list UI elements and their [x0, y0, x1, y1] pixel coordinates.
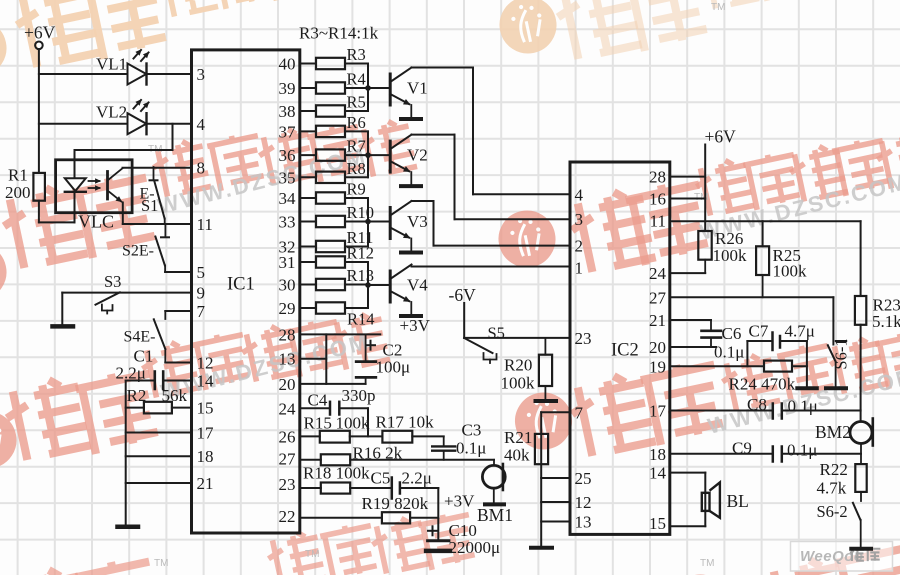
svg-text:+6V: +6V: [705, 127, 737, 147]
svg-text:25: 25: [575, 469, 592, 488]
svg-text:R15: R15: [304, 414, 332, 433]
svg-text:R3: R3: [347, 45, 366, 64]
svg-text:3: 3: [197, 65, 206, 84]
svg-text:30: 30: [279, 276, 296, 295]
svg-text:+6V: +6V: [24, 23, 56, 43]
svg-text:TM: TM: [711, 2, 725, 13]
svg-text:S2E-: S2E-: [122, 243, 154, 260]
svg-text:2.2μ: 2.2μ: [116, 364, 146, 383]
svg-text:13: 13: [279, 350, 296, 369]
svg-text:13: 13: [575, 513, 592, 532]
svg-text:26: 26: [279, 427, 296, 446]
svg-text:0.1μ: 0.1μ: [787, 441, 817, 460]
svg-text:11: 11: [197, 215, 213, 234]
svg-text:C7: C7: [749, 322, 769, 341]
svg-text:R8: R8: [347, 159, 366, 178]
svg-text:17: 17: [197, 424, 215, 443]
svg-text:TM: TM: [154, 558, 168, 569]
svg-text:R21: R21: [504, 428, 532, 447]
svg-text:S5: S5: [488, 324, 505, 343]
svg-text:V3: V3: [407, 212, 428, 231]
svg-text:IC1: IC1: [227, 275, 255, 295]
svg-text:100k: 100k: [336, 414, 371, 433]
svg-text:28: 28: [649, 168, 666, 187]
svg-text:33: 33: [279, 213, 296, 232]
svg-text:R24 470k: R24 470k: [729, 375, 796, 394]
svg-text:R10: R10: [347, 203, 375, 222]
svg-text:100k: 100k: [501, 374, 536, 393]
svg-text:C3: C3: [462, 421, 482, 440]
svg-text:R1: R1: [8, 166, 28, 185]
svg-text:16: 16: [649, 190, 666, 209]
svg-text:S1: S1: [141, 196, 158, 215]
svg-text:BM2: BM2: [815, 422, 851, 442]
svg-text:22000μ: 22000μ: [449, 538, 501, 557]
svg-text:12: 12: [197, 354, 214, 373]
svg-text:24: 24: [279, 399, 297, 418]
svg-text:17: 17: [649, 402, 667, 421]
svg-text:0.1μ: 0.1μ: [456, 439, 486, 458]
svg-text:VLC: VLC: [78, 212, 114, 232]
svg-text:4.7k: 4.7k: [817, 479, 847, 498]
svg-text:5.1k: 5.1k: [872, 312, 900, 331]
svg-text:R3~R14:1k: R3~R14:1k: [299, 24, 379, 43]
svg-text:38: 38: [279, 102, 296, 121]
svg-text:39: 39: [279, 79, 296, 98]
svg-text:330p: 330p: [342, 386, 376, 405]
svg-text:100k: 100k: [773, 262, 808, 281]
svg-text:24: 24: [649, 264, 667, 283]
svg-text:34: 34: [279, 189, 297, 208]
svg-text:21: 21: [197, 474, 214, 493]
svg-text:S4E-: S4E-: [124, 329, 156, 346]
svg-text:36: 36: [279, 146, 296, 165]
svg-text:40: 40: [279, 55, 296, 74]
svg-text:29: 29: [279, 299, 296, 318]
svg-text:C8: C8: [747, 395, 767, 414]
svg-text:R16 2k: R16 2k: [353, 444, 403, 463]
svg-text:VL1: VL1: [96, 55, 127, 74]
svg-text:21: 21: [649, 311, 666, 330]
svg-text:R7: R7: [347, 137, 366, 156]
svg-text:12: 12: [575, 493, 592, 512]
svg-text:1: 1: [575, 259, 584, 278]
svg-text:C5: C5: [371, 469, 391, 488]
svg-text:100k: 100k: [713, 246, 748, 265]
svg-text:20: 20: [649, 338, 666, 357]
svg-text:R5: R5: [347, 93, 366, 112]
svg-text:19: 19: [649, 357, 666, 376]
svg-text:-6V: -6V: [449, 285, 477, 305]
svg-text:R13: R13: [347, 266, 375, 285]
svg-text:R18 100k: R18 100k: [303, 464, 370, 483]
svg-text:R17 10k: R17 10k: [376, 413, 435, 432]
svg-text:R6: R6: [347, 113, 366, 132]
svg-text:4: 4: [575, 185, 584, 204]
svg-text:R9: R9: [347, 180, 366, 199]
svg-text:C9: C9: [732, 439, 752, 458]
svg-text:18: 18: [197, 447, 214, 466]
svg-text:28: 28: [279, 325, 296, 344]
svg-text:27: 27: [279, 450, 297, 469]
svg-text:R14: R14: [347, 310, 375, 329]
svg-text:15: 15: [197, 399, 214, 418]
svg-text:27: 27: [649, 288, 667, 307]
svg-text:C4: C4: [308, 391, 328, 410]
svg-text:23: 23: [575, 329, 592, 348]
svg-text:R4: R4: [347, 70, 366, 89]
svg-text:18: 18: [649, 445, 666, 464]
svg-text:R12: R12: [347, 244, 375, 263]
svg-text:V4: V4: [407, 276, 428, 295]
svg-text:40k: 40k: [504, 446, 530, 465]
svg-text:7: 7: [197, 302, 206, 321]
svg-text:BM1: BM1: [477, 505, 513, 525]
svg-text:0.1μ: 0.1μ: [714, 343, 744, 362]
svg-text:R19 820k: R19 820k: [362, 494, 429, 513]
svg-text:7: 7: [575, 403, 584, 422]
svg-text:20: 20: [279, 375, 296, 394]
svg-text:8: 8: [197, 159, 206, 178]
svg-text:11: 11: [650, 212, 666, 231]
svg-text:0.1μ: 0.1μ: [788, 397, 818, 416]
svg-text:4.7μ: 4.7μ: [785, 322, 815, 341]
svg-text:37: 37: [279, 122, 297, 141]
svg-text:R20: R20: [504, 356, 532, 375]
svg-text:+3V: +3V: [400, 316, 431, 335]
svg-text:14: 14: [197, 372, 215, 391]
svg-text:31: 31: [279, 253, 296, 272]
svg-text:2.2μ: 2.2μ: [402, 469, 432, 488]
svg-text:5: 5: [197, 263, 206, 282]
svg-text:V2: V2: [407, 146, 428, 165]
svg-text:BL: BL: [727, 491, 749, 511]
svg-text:56k: 56k: [162, 386, 188, 405]
svg-text:TM: TM: [700, 558, 714, 569]
svg-text:100μ: 100μ: [376, 358, 411, 377]
svg-text:TM: TM: [305, 549, 319, 560]
svg-text:200: 200: [5, 183, 31, 202]
svg-text:C6: C6: [722, 324, 742, 343]
svg-text:VL2: VL2: [96, 103, 127, 122]
svg-text:2: 2: [575, 237, 584, 256]
svg-text:9: 9: [197, 284, 206, 303]
svg-text:15: 15: [649, 514, 666, 533]
svg-text:23: 23: [279, 475, 296, 494]
svg-text:4: 4: [197, 115, 206, 134]
svg-text:R2: R2: [127, 386, 147, 405]
svg-text:S6-2: S6-2: [817, 502, 848, 521]
svg-text:+3V: +3V: [444, 492, 475, 511]
svg-text:3: 3: [575, 210, 584, 229]
svg-text:S6-1: S6-1: [832, 338, 851, 369]
svg-text:IC2: IC2: [611, 341, 639, 361]
svg-text:35: 35: [279, 168, 296, 187]
svg-text:S3: S3: [104, 272, 121, 291]
svg-text:V1: V1: [407, 79, 428, 98]
svg-text:R22: R22: [820, 460, 848, 479]
svg-text:14: 14: [649, 464, 667, 483]
svg-text:22: 22: [279, 507, 296, 526]
